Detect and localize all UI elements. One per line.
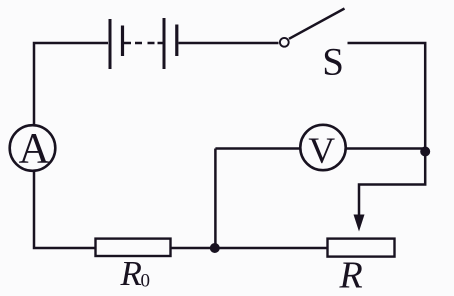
svg-text:R: R: [339, 254, 363, 296]
svg-text:A: A: [19, 126, 50, 173]
svg-text:V: V: [308, 131, 335, 172]
svg-text:R: R: [120, 254, 142, 293]
svg-text:S: S: [322, 40, 344, 83]
svg-text:0: 0: [141, 270, 151, 291]
